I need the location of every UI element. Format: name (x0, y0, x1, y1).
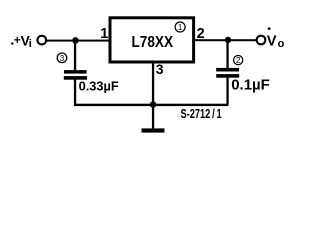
svg-text:S-2712 / 1: S-2712 / 1 (181, 107, 222, 121)
svg-text:L78XX: L78XX (132, 34, 174, 51)
svg-text:3: 3 (156, 61, 164, 77)
svg-text:V: V (267, 34, 277, 50)
svg-text:2: 2 (197, 26, 205, 42)
svg-text:1: 1 (100, 26, 108, 42)
svg-text:o: o (278, 38, 285, 50)
svg-text:0.1µF: 0.1µF (231, 76, 270, 93)
svg-text:i: i (29, 38, 32, 50)
svg-text:3: 3 (60, 54, 65, 63)
svg-text:0.33µF: 0.33µF (79, 78, 119, 93)
svg-text:1: 1 (178, 23, 183, 32)
svg-text:2: 2 (236, 56, 241, 65)
